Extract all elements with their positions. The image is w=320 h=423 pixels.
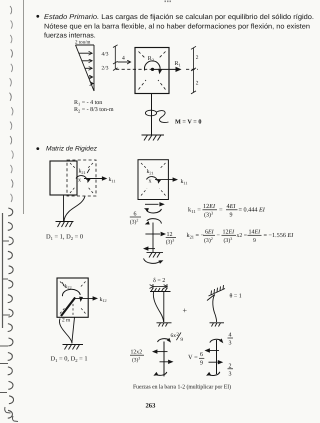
lower moment arc — [147, 219, 162, 224]
svg-text:fuerzas internas.: fuerzas internas. — [44, 32, 96, 40]
fraction 2/3 — [228, 363, 234, 377]
svg-text:= −1.556 EI: = −1.556 EI — [264, 232, 295, 239]
svg-text:2 m: 2 m — [62, 318, 71, 324]
svg-text:θ = 1: θ = 1 — [230, 293, 242, 300]
displaced block dashed — [67, 160, 96, 196]
svg-text:14EI: 14EI — [249, 230, 262, 236]
svg-text:3: 3 — [229, 341, 232, 347]
fraction 6/(3)^2 — [130, 212, 141, 226]
svg-text:12EI: 12EI — [203, 203, 216, 210]
reaction R1 arrow — [154, 68, 176, 70]
deflected curve — [153, 292, 163, 322]
svg-text:R1 = - 4 ton: R1 = - 4 ton — [74, 100, 102, 107]
triangle top edge — [76, 44, 95, 46]
force k11 arrow — [155, 179, 173, 181]
top moment arc — [210, 339, 222, 342]
svg-text:Nótese que en la barra flexibl: Nótese que en la barra flexible, al no h… — [44, 22, 310, 30]
svg-text:2: 2 — [229, 363, 232, 369]
ground under column — [142, 135, 165, 141]
svg-text:2/3: 2/3 — [102, 66, 109, 72]
rotated rigid bar — [61, 298, 75, 317]
lower shear arrow (right) — [160, 361, 169, 363]
bottom moment arc — [208, 372, 220, 376]
ground — [56, 222, 74, 228]
svg-text:x: x — [78, 178, 81, 184]
lower shear arrow (right) — [209, 361, 218, 363]
svg-text:9: 9 — [180, 337, 183, 343]
spiral binding marks — [0, 6, 18, 422]
upper moment arc — [146, 209, 161, 213]
moment arc — [147, 177, 158, 181]
svg-text:2: 2 — [196, 55, 199, 61]
fraction 4/3 — [228, 333, 234, 347]
svg-text:−: − — [217, 232, 221, 239]
svg-text:12x2: 12x2 — [131, 350, 143, 356]
svg-text:2: 2 — [196, 81, 199, 87]
top shear arrow — [145, 203, 159, 205]
dimension arrow — [153, 286, 167, 288]
block — [57, 278, 88, 317]
svg-text:3: 3 — [229, 371, 232, 377]
bar line — [216, 340, 218, 374]
svg-text:=: = — [219, 207, 223, 214]
page edge vertical line — [23, 0, 25, 214]
dashed original axis — [72, 300, 74, 317]
base moment arc — [144, 259, 161, 264]
svg-text:Matriz de Rigidez: Matriz de Rigidez — [46, 146, 98, 153]
moment arc k22 — [62, 289, 80, 296]
ground — [147, 253, 164, 258]
svg-text:4/3: 4/3 — [102, 52, 109, 58]
upper shear arrow (left) — [210, 350, 220, 352]
deflected column curve — [213, 295, 217, 323]
svg-text:6x: 6x — [171, 333, 177, 339]
svg-text:Estado Primario. Las cargas de: Estado Primario. Las cargas de fijación … — [44, 13, 314, 21]
svg-text:4EI: 4EI — [227, 203, 237, 210]
fraction 12x2/(3)^3 — [130, 350, 144, 364]
ground — [210, 323, 225, 327]
ground — [63, 345, 84, 350]
header remnant dots — [165, 1, 172, 3]
arrow labelled 4 — [118, 61, 131, 63]
svg-text:6EI: 6EI — [205, 230, 215, 236]
deflected column curve — [59, 319, 72, 344]
svg-text:R1: R1 — [175, 61, 181, 68]
svg-text:R2: R2 — [148, 56, 154, 63]
moment R2 arc — [144, 61, 160, 71]
moment arc k21 — [76, 176, 87, 180]
original block solid — [50, 161, 77, 195]
svg-text:V =: V = — [188, 354, 198, 361]
svg-text:δ = 2: δ = 2 — [153, 277, 165, 284]
bullet 2 — [36, 147, 39, 150]
svg-text:x: x — [149, 179, 152, 185]
k21 formula — [187, 230, 295, 245]
corner dashes — [60, 282, 86, 314]
margin tick marks — [2, 240, 9, 242]
column original line — [63, 195, 65, 222]
column below block — [151, 94, 153, 136]
triangle right edge — [93, 45, 95, 91]
k11 formula — [188, 203, 266, 219]
leader squiggle — [157, 111, 169, 123]
bottom shear arrow left — [147, 248, 155, 250]
rigid block — [135, 48, 169, 94]
inclined sliding support — [209, 285, 226, 296]
rotated tangent — [207, 295, 215, 301]
bullet 1 — [36, 15, 39, 18]
fraction 6/9 — [199, 352, 204, 366]
svg-text:R2 = - 8/3 ton-m: R2 = - 8/3 ton-m — [74, 107, 114, 114]
left dimension line 4/3 2/3 — [113, 45, 118, 71]
bar line — [163, 342, 165, 377]
mid shear arrow — [145, 233, 160, 235]
deflected column curve — [64, 196, 85, 222]
fraction 12/(3)^3 — [166, 232, 176, 246]
column line — [163, 292, 165, 323]
center node — [151, 68, 154, 71]
svg-text:4: 4 — [229, 333, 232, 339]
svg-text:= 0.444 EI: = 0.444 EI — [239, 207, 266, 214]
load arrows — [79, 52, 92, 54]
triangle hypotenuse — [76, 45, 95, 91]
displaced block — [138, 160, 168, 200]
column line — [152, 223, 154, 253]
svg-text:9: 9 — [253, 238, 256, 244]
svg-text:M = V = 0: M = V = 0 — [175, 119, 201, 126]
corner dashes — [141, 163, 166, 196]
svg-text:9: 9 — [230, 213, 233, 219]
right dimension line 2,2 — [191, 46, 196, 94]
svg-text:Fuerzas en la barra 1-2 (multi: Fuerzas en la barra 1-2 (multiplicar por… — [133, 383, 231, 390]
block corner dashes — [139, 52, 166, 90]
dashed centerline — [116, 68, 152, 70]
ground — [157, 323, 172, 327]
force k11 arrow — [84, 178, 103, 180]
corner dashes — [70, 163, 93, 193]
svg-text:k21 = −: k21 = − — [187, 232, 205, 239]
svg-text:263: 263 — [146, 403, 157, 410]
top moment arc — [158, 339, 170, 342]
force k12 arrow — [76, 297, 94, 299]
section cut ellipse — [145, 110, 156, 116]
svg-text:12EI: 12EI — [223, 230, 236, 236]
bottom moment arc — [156, 372, 167, 375]
svg-text:6: 6 — [200, 352, 203, 358]
upper shear arrow (left) — [157, 351, 168, 353]
svg-text:+: + — [183, 306, 188, 315]
paragraph text — [44, 13, 314, 40]
top sliding support — [150, 288, 171, 292]
svg-text:4: 4 — [122, 56, 125, 62]
column line — [72, 317, 75, 343]
svg-text:9: 9 — [200, 360, 203, 366]
